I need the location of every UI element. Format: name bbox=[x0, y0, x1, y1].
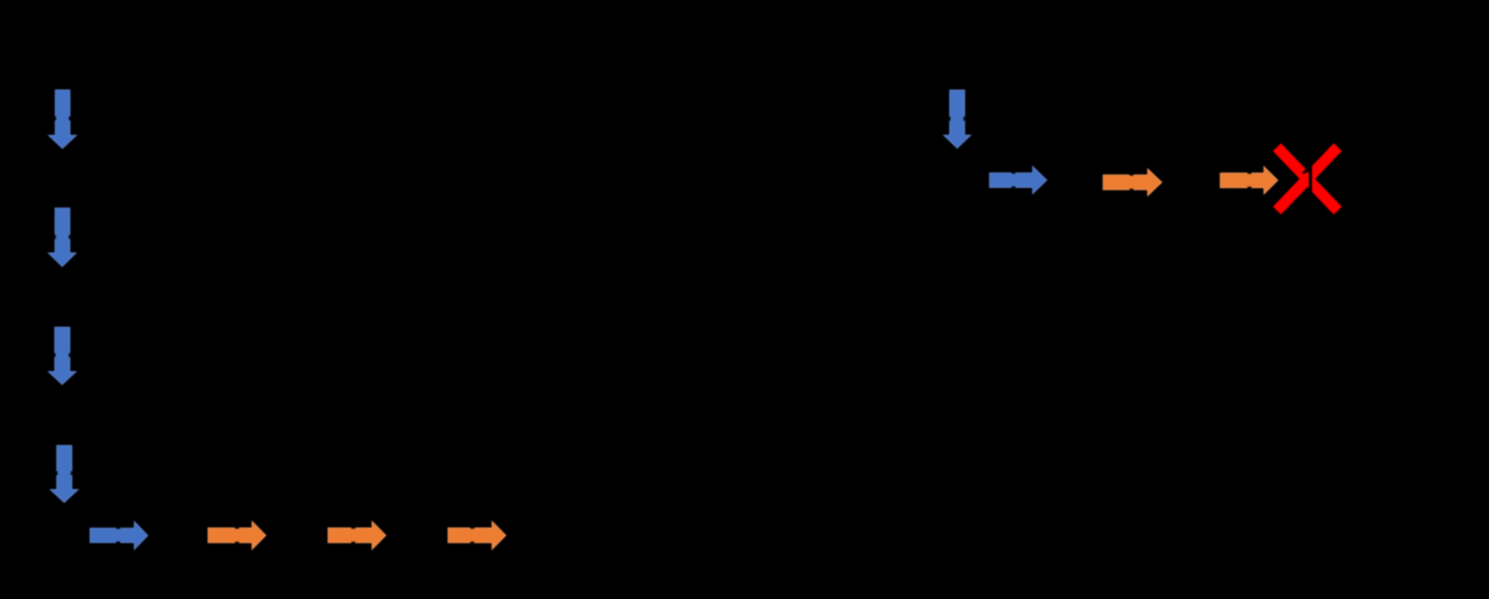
red X mark (cancelled step), bar TL to BR bbox=[1273, 143, 1342, 214]
blue down arrow A3 (left column, step 3) bbox=[49, 327, 76, 384]
blue down arrow A1 (left column, step 1) bbox=[49, 90, 76, 148]
text artifact nick on A3 stem edges bbox=[54, 353, 56, 357]
orange right arrow H2 (bottom row) bbox=[208, 522, 266, 549]
text artifact nick on H3 stem edges bbox=[351, 527, 355, 529]
blue down arrow A4 (left column, step 4) bbox=[51, 446, 78, 503]
blue down arrow B1 (right group) bbox=[944, 90, 970, 148]
blue right arrow H1 (bottom row) bbox=[90, 522, 147, 549]
text artifact nick on A4 stem edges bbox=[56, 471, 58, 475]
blue right arrow B2 (right group) bbox=[990, 167, 1047, 194]
text artifact nick on B1 stem edges bbox=[949, 117, 951, 121]
orange right arrow O2 (right group) bbox=[1220, 167, 1277, 194]
text artifact nick on H2 stem edges bbox=[235, 527, 239, 529]
text artifact nick on B2 stem edges bbox=[1011, 172, 1015, 174]
black numeral 1 over the X (hidden label text) bbox=[1302, 166, 1312, 193]
text artifact nick on O1 stem edges bbox=[1130, 174, 1134, 176]
text artifact nick on H1 stem edges bbox=[116, 527, 120, 529]
blue down arrow A2 (left column, step 2) bbox=[49, 208, 76, 266]
text artifact nick on O2 stem edges bbox=[1248, 172, 1252, 174]
orange right arrow H4 (bottom row) bbox=[448, 522, 506, 549]
text artifact nick on A1 stem edges bbox=[55, 116, 57, 120]
text artifact nick on A2 stem edges bbox=[54, 235, 56, 239]
orange right arrow O1 (right group) bbox=[1103, 169, 1161, 195]
orange right arrow H3 (bottom row) bbox=[328, 522, 386, 549]
text artifact nick on H4 stem edges bbox=[470, 527, 474, 529]
red X mark, bar BL to TR bbox=[1273, 143, 1342, 214]
